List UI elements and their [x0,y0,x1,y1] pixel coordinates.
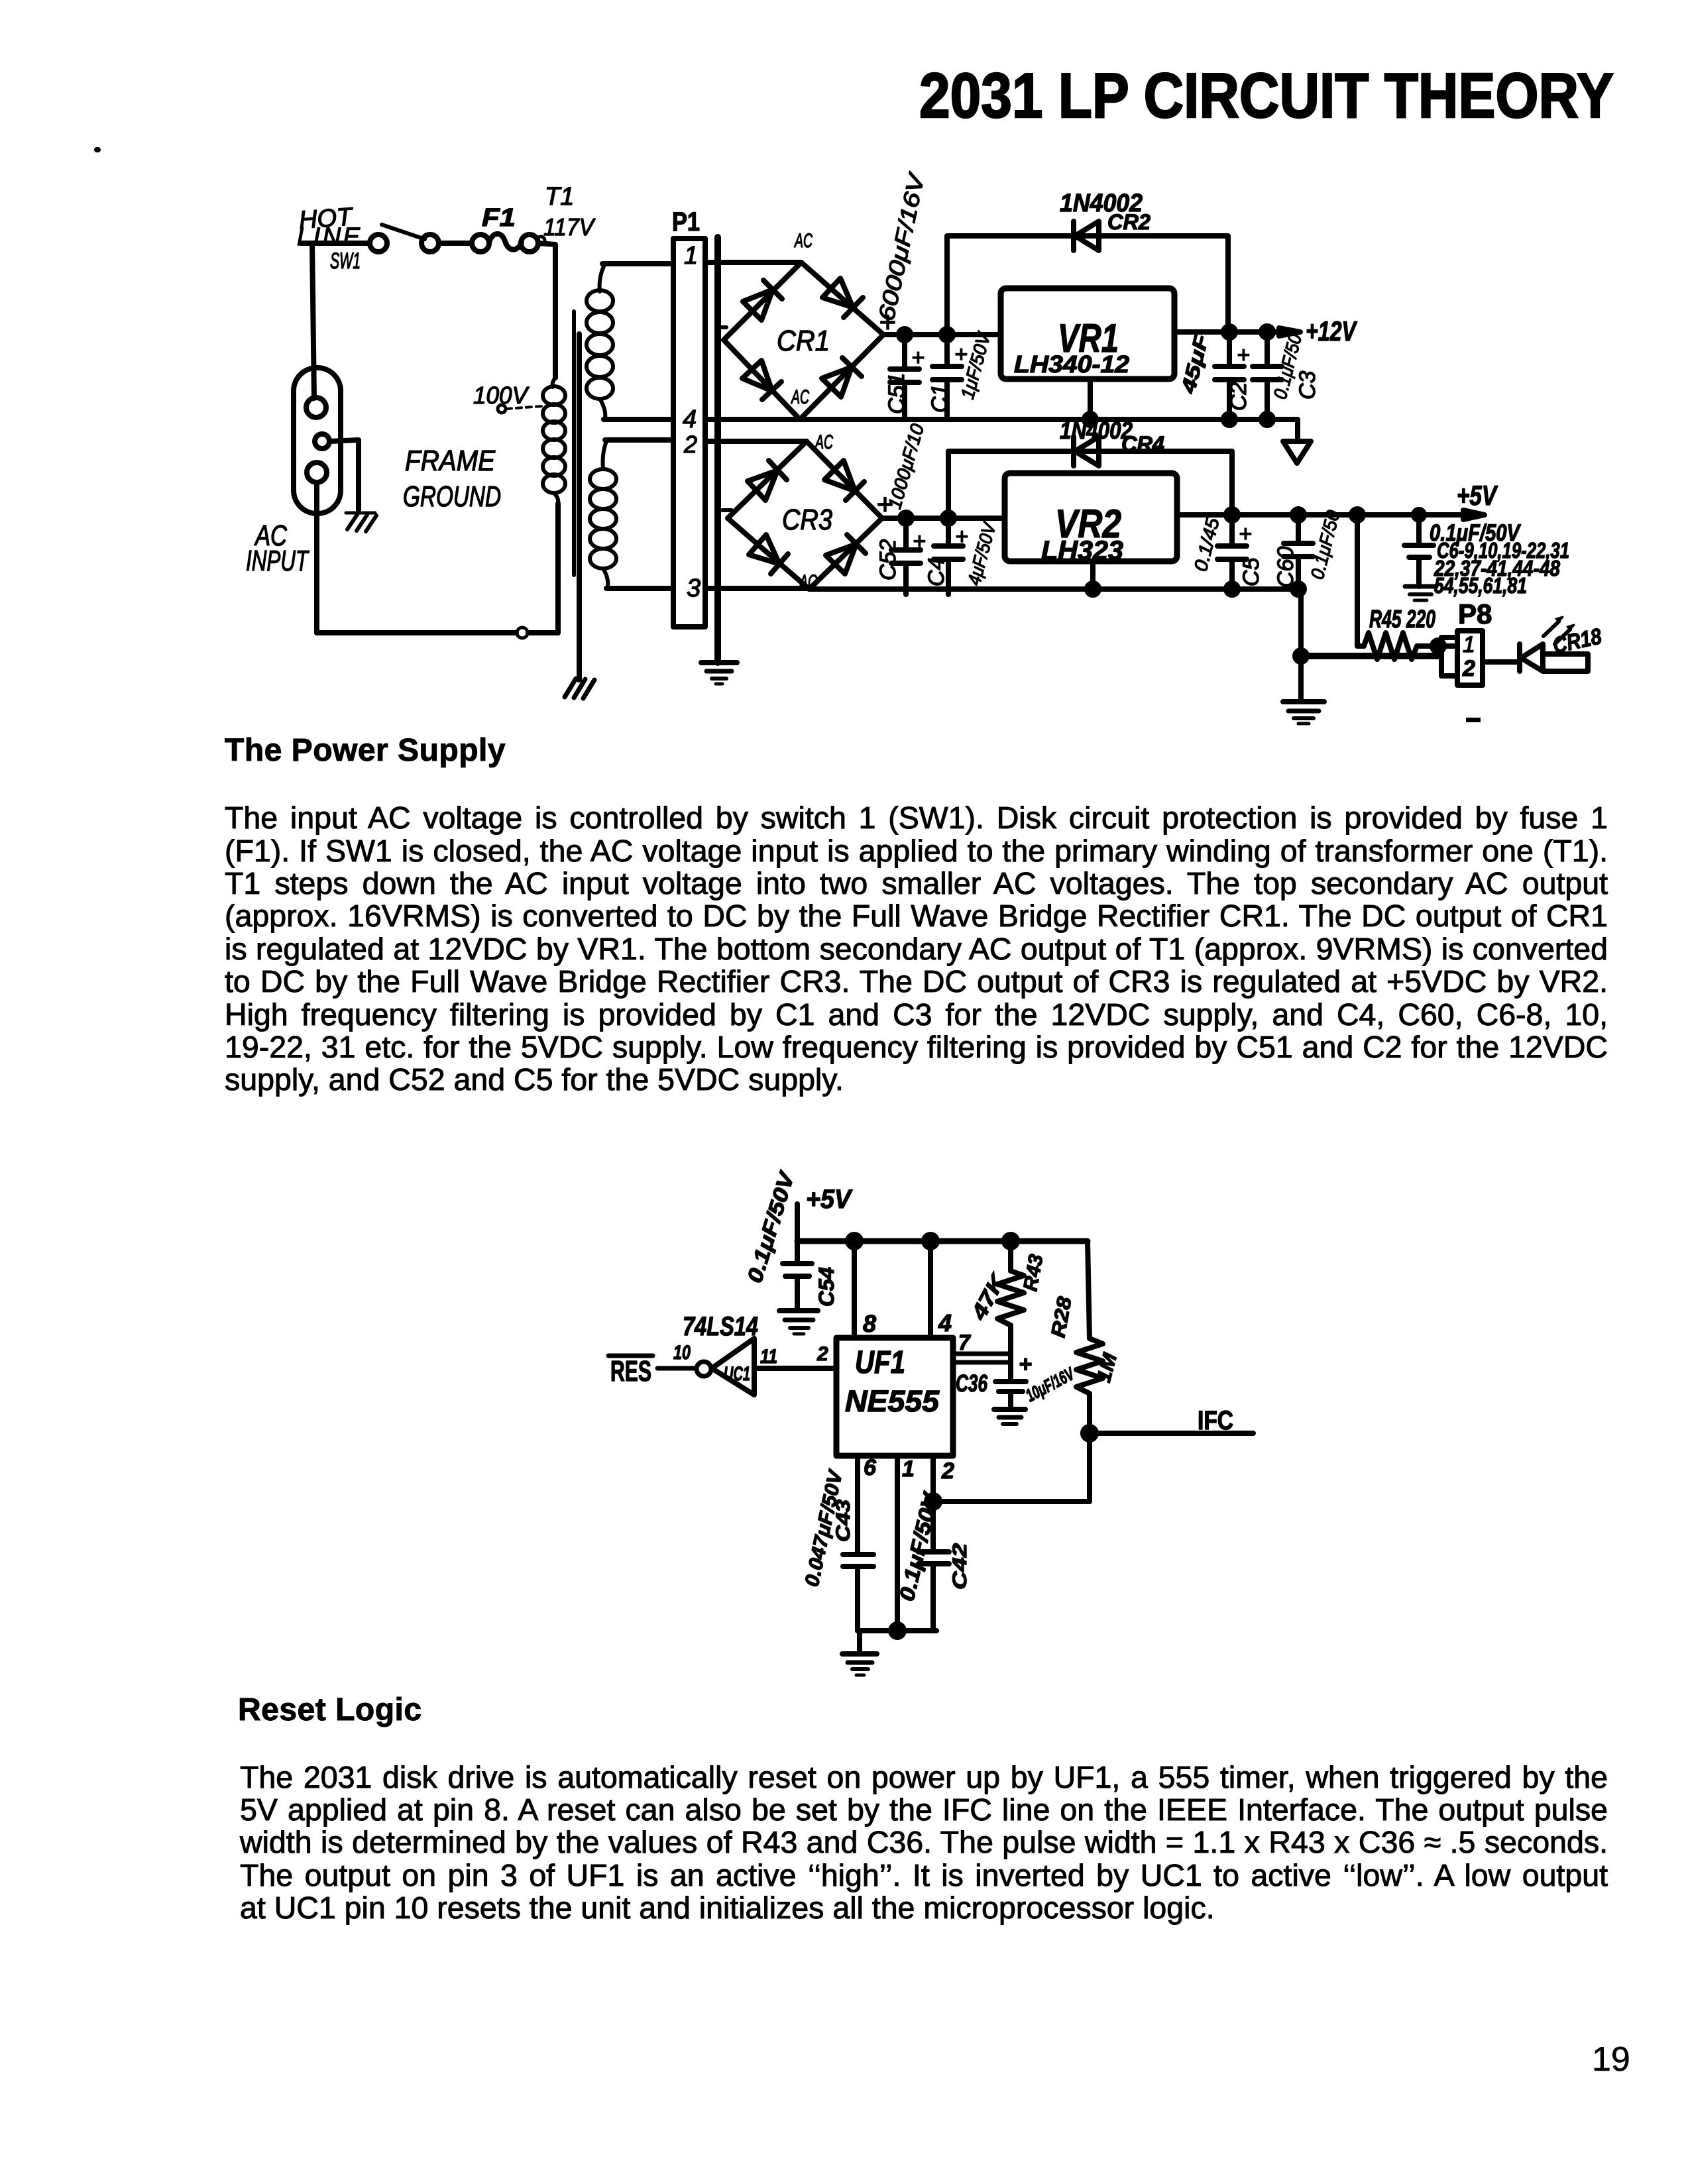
wire pin 6 [858,1455,877,1555]
svg-text:R43: R43 [1019,1252,1047,1293]
wire [602,261,673,266]
section heading: Reset Logic [238,1694,422,1726]
junction [1226,509,1238,521]
diode CR4 [948,417,1232,518]
junction [1087,583,1099,595]
paragraph 2 [240,1761,1608,1794]
wire [538,243,555,378]
wire [302,241,370,246]
junction [1223,413,1235,425]
svg-text:INPUT: INPUT [246,545,309,577]
node RES [608,1355,697,1388]
junction [927,1495,940,1508]
wire [606,586,673,591]
wire [555,504,561,633]
junction [1351,509,1363,521]
svg-text:117V: 117V [543,213,596,241]
svg-text:54,55,61,81: 54,55,61,81 [1434,573,1527,598]
capacitor C2 [1215,332,1251,418]
capacitor C42 [895,1489,971,1631]
page number [1592,2042,1630,2077]
capacitor C60 [1273,508,1344,593]
svg-text:C5: C5 [1239,557,1264,586]
svg-text:CR1: CR1 [777,325,830,357]
wire [714,237,721,663]
transformer T1 primary [543,378,565,505]
section heading: The Power Supply [225,734,506,767]
wire [933,1433,1090,1501]
svg-text:RES: RES [610,1355,651,1388]
resistor R28 [1047,1241,1121,1433]
bridge rectifier CR3 [722,431,893,593]
junction [942,512,954,524]
junction [1223,326,1235,338]
ground [994,1409,1025,1424]
capacitor C54 [742,1168,838,1311]
svg-text:4: 4 [683,406,697,433]
ground [842,1654,877,1675]
svg-text:+: + [1239,521,1252,547]
svg-text:FRAME: FRAME [405,445,496,477]
svg-text:1: 1 [684,242,698,270]
svg-text:GROUND: GROUND [403,480,501,513]
LED CR18 [1483,617,1604,671]
wire [754,1343,836,1368]
resistor R43 [966,1241,1048,1358]
wire [1090,561,1096,589]
svg-text:LH340-12: LH340-12 [1014,351,1129,378]
ground [1283,702,1324,724]
ground [779,1311,818,1334]
wire [797,1238,1088,1244]
svg-text:2: 2 [683,431,697,458]
junction [1292,583,1304,595]
node arrow down [1283,441,1311,463]
wire [605,437,673,443]
svg-text:4μF/50V: 4μF/50V [964,519,1000,588]
svg-text:R28: R28 [1047,1295,1076,1339]
svg-text:AC: AC [794,230,813,252]
switch SW1 [330,225,439,274]
wire [329,440,359,512]
transformer T1 secondary 2 [590,441,616,588]
junction [1414,510,1424,520]
svg-text:1: 1 [902,1456,915,1482]
junction [848,1234,861,1248]
svg-text:R45 220: R45 220 [1369,606,1435,633]
svg-text:CR18: CR18 [1551,624,1604,659]
svg-text:UC1: UC1 [724,1363,750,1385]
svg-text:C4: C4 [924,558,949,586]
svg-text:45μF: 45μF [1177,332,1213,396]
svg-text:2: 2 [941,1458,954,1484]
capacitor C5 [1190,515,1264,593]
svg-text:T1: T1 [545,183,574,211]
svg-text:P8: P8 [1458,598,1492,629]
transformer T1 label [543,183,596,241]
connector P8 [1438,598,1492,685]
junction [924,1234,937,1248]
wire [604,417,673,422]
junction [1261,326,1273,338]
node +5V [797,1185,853,1241]
svg-text:NE555: NE555 [845,1384,940,1418]
capacitor C51 [874,170,930,418]
ground [701,663,737,684]
svg-text:7: 7 [958,1331,972,1354]
wire [800,419,1298,441]
svg-text:C54: C54 [815,1267,838,1307]
wire [705,439,807,444]
wire [705,260,801,265]
junction [900,512,912,524]
svg-text:P1: P1 [672,207,700,237]
wire [1177,512,1463,518]
node FRAME GROUND [403,445,501,513]
svg-text:+: + [913,529,926,554]
svg-text:AC: AC [791,386,810,408]
wire [809,589,1301,702]
capacitor C4 [924,518,1000,594]
stray scan dash [1466,718,1481,722]
junction [1292,509,1304,521]
wire [705,417,800,422]
ground frame ground [346,513,376,531]
connector AC INPUT [246,243,341,577]
svg-text:LINE: LINE [297,223,361,251]
transformer T1 core [574,311,579,680]
svg-text:6000μF/16V: 6000μF/16V [874,170,930,323]
svg-text:4: 4 [938,1309,952,1337]
junction [1004,1234,1017,1248]
svg-text:IFC: IFC [1198,1406,1233,1435]
wire [857,1631,862,1654]
wire [1301,653,1440,659]
junction [941,329,953,341]
capacitor C43 [801,1466,873,1631]
wire [858,1628,936,1633]
connector P1 [672,207,705,627]
wire pin 4 [930,1241,952,1338]
page title [919,64,1614,128]
fuse F1 [472,204,545,252]
junction [1084,413,1096,425]
svg-text:C52: C52 [875,539,901,580]
svg-text:C1: C1 [927,384,952,413]
timer UF1 [836,1338,953,1456]
junction [891,1624,904,1637]
wire pin 2 [933,1456,954,1552]
svg-text:CR3: CR3 [782,504,832,536]
wire [705,586,809,591]
junction [1432,640,1444,652]
bridge rectifier CR1 [717,230,896,419]
transformer T1 secondary 1 [587,266,613,419]
junction [1226,583,1238,595]
scan speck [94,147,101,152]
svg-text:+: + [955,524,968,549]
svg-text:C42: C42 [949,1543,971,1590]
svg-text:8: 8 [863,1310,876,1337]
svg-text:74LS14: 74LS14 [683,1312,758,1341]
wire pin 7 [953,1331,1011,1362]
wire [439,241,472,246]
node +12V [1279,315,1357,347]
svg-text:+: + [1237,343,1250,368]
wire [1174,329,1279,335]
wire [882,516,1005,521]
svg-text:2: 2 [816,1343,828,1365]
regulator VR1 [1001,288,1174,379]
diode CR2 [947,190,1228,335]
svg-text:6: 6 [864,1455,877,1480]
svg-text:C3: C3 [1295,370,1320,400]
svg-text:AC: AC [815,431,834,453]
inverter UC1 [673,1312,758,1395]
svg-text:0.1μF/50V: 0.1μF/50V [742,1168,799,1285]
svg-text:CR2: CR2 [1107,210,1151,234]
junction [1295,650,1307,662]
svg-text:+5V: +5V [1457,480,1498,511]
svg-text:C51: C51 [884,373,909,414]
svg-text:1000μF/10: 1000μF/10 [884,421,928,512]
svg-text:+5V: +5V [806,1185,853,1214]
svg-text:11: 11 [760,1346,777,1368]
capacitor C6 bypass [1404,515,1569,600]
node +5V [1457,480,1498,519]
capacitor C36 [956,1352,1078,1409]
resistor R45 [1357,515,1438,659]
svg-text:+: + [911,345,925,370]
svg-text:F1: F1 [482,204,516,232]
svg-text:C2: C2 [1226,382,1251,411]
node HOT LINE [297,203,361,251]
svg-text:+12V: +12V [1306,315,1357,347]
capacitor C1 [927,329,995,418]
svg-text:10: 10 [673,1342,691,1364]
node 100V tap [473,382,542,413]
svg-text:2: 2 [1462,656,1475,681]
wire [1088,379,1093,419]
svg-text:UF1: UF1 [855,1345,905,1380]
junction [899,329,911,341]
svg-text:1: 1 [1463,632,1475,657]
wire IFC [1083,1406,1253,1440]
capacitor C3 [1253,332,1320,418]
svg-text:+: + [1019,1352,1032,1377]
regulator VR2 [1005,473,1177,565]
paragraph 1 [225,802,1608,834]
wire [883,332,1001,337]
junction [1261,413,1273,425]
svg-text:C36: C36 [956,1370,988,1397]
svg-text:LH323: LH323 [1041,536,1123,565]
svg-text:3: 3 [687,574,701,602]
svg-text:CR4: CR4 [1121,432,1164,456]
wire pin 8 [854,1241,876,1338]
svg-text:1M: 1M [1093,1350,1122,1385]
capacitor C52 [875,421,928,594]
wire [317,628,558,638]
svg-text:SW1: SW1 [330,248,361,274]
wire [314,482,319,633]
wire pin 1 [897,1456,915,1631]
ground [565,679,594,698]
